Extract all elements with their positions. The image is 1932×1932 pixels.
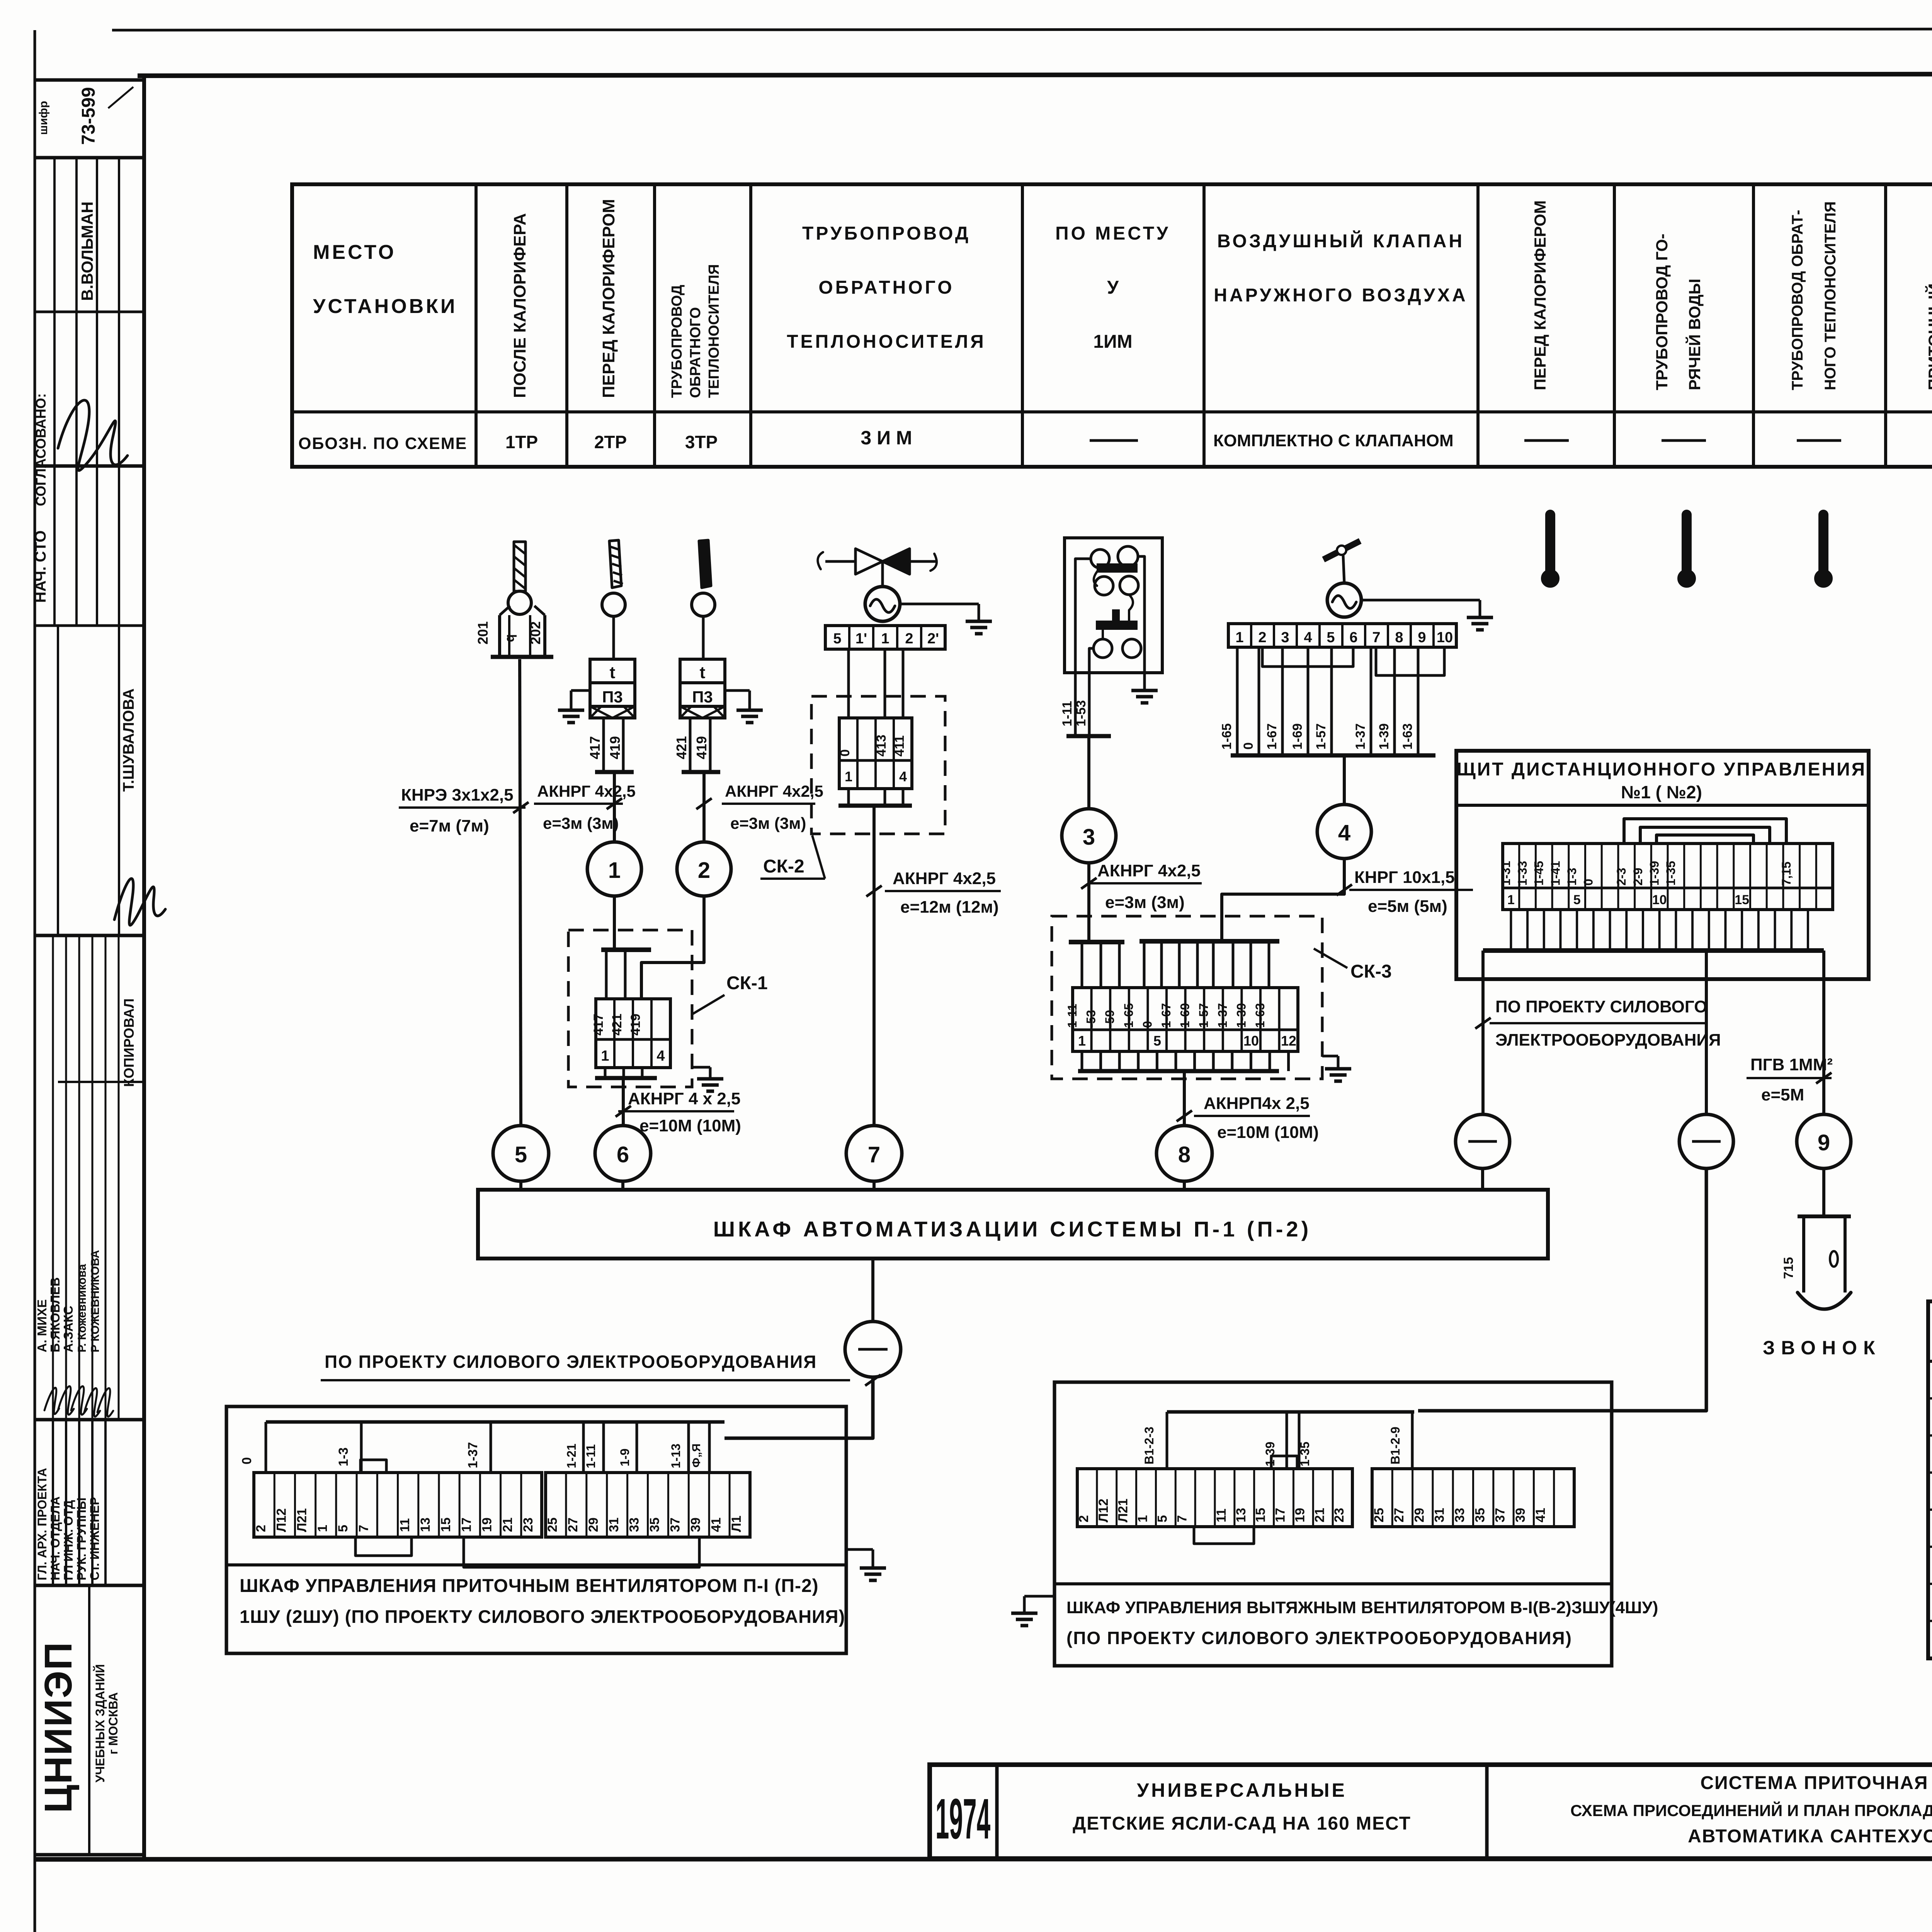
svg-text:5: 5 <box>1153 1033 1161 1049</box>
parts list header row line <box>1928 1360 1932 1363</box>
svg-text:5: 5 <box>833 631 841 647</box>
item circle 7 <box>846 1126 902 1181</box>
SK-1 bottom bus and exit wire <box>604 1068 607 1078</box>
SK-1 top bus <box>601 947 651 952</box>
paper left edge <box>34 30 36 1932</box>
wire dash circle B to vytyazhn box <box>1418 1168 1706 1411</box>
paper top edge <box>112 29 1932 30</box>
svg-text:15: 15 <box>1253 1508 1268 1522</box>
svg-text:1-39: 1-39 <box>1648 861 1662 886</box>
svg-text:19: 19 <box>480 1517 495 1532</box>
vytyazhnoy cabinet divider <box>1054 1582 1612 1585</box>
svg-text:-59: -59 <box>1103 1010 1117 1028</box>
svg-text:27: 27 <box>566 1517 580 1532</box>
svg-text:П3: П3 <box>602 688 623 706</box>
wire bus to circle 3 <box>1087 736 1090 809</box>
SK-3 terminal strip <box>1073 988 1298 1051</box>
wire valve to actuator circle <box>881 561 884 587</box>
svg-text:11: 11 <box>1214 1509 1229 1522</box>
vytyazhnoy risers with labels <box>1166 1412 1168 1469</box>
top table row divider <box>292 410 1932 413</box>
svg-text:29: 29 <box>586 1517 601 1532</box>
svg-text:1-37: 1-37 <box>1216 1003 1230 1028</box>
svg-text:УСТАНОВКИ: УСТАНОВКИ <box>313 295 457 318</box>
svg-text:33: 33 <box>1452 1508 1467 1522</box>
svg-text:АКНРГ 4х2,5: АКНРГ 4х2,5 <box>893 869 996 888</box>
svg-text:ШКАФ УПРАВЛЕНИЯ ПРИТОЧНЫМ В: ШКАФ УПРАВЛЕНИЯ ПРИТОЧНЫМ ВЕНТИЛЯТОРОМ П… <box>240 1576 819 1596</box>
svg-text:13: 13 <box>418 1517 433 1532</box>
item circle 6 <box>595 1126 651 1181</box>
svg-text:5: 5 <box>1573 893 1581 907</box>
thermometer sensor T1 <box>609 540 621 588</box>
svg-text:37: 37 <box>1493 1508 1508 1522</box>
svg-text:3: 3 <box>1083 825 1095 850</box>
svg-text:9: 9 <box>1418 629 1426 646</box>
svg-text:НАЧ. ОТДЕЛА: НАЧ. ОТДЕЛА <box>48 1497 62 1580</box>
svg-text:е=3м (3м): е=3м (3м) <box>730 814 806 832</box>
svg-text:7,15: 7,15 <box>1779 862 1793 886</box>
svg-text:1ШУ (2ШУ) (ПО ПРОЕКТУ СИЛОВОГ: 1ШУ (2ШУ) (ПО ПРОЕКТУ СИЛОВОГО ЭЛЕКТРООБ… <box>240 1606 845 1627</box>
svg-text:е=5М: е=5М <box>1761 1085 1804 1104</box>
stamp outer box <box>930 1765 1932 1859</box>
svg-text:9: 9 <box>1818 1130 1830 1155</box>
top table cell dash 4 <box>1797 439 1841 442</box>
wire SK-2 to circle 7 <box>872 806 876 1126</box>
top table cell dash 1 <box>1090 439 1138 442</box>
sidebar internal vertical rules <box>53 158 56 626</box>
actuator circle item 4 <box>1327 583 1361 617</box>
svg-text:4: 4 <box>1338 820 1350 845</box>
svg-text:е=5м (5м): е=5м (5м) <box>1368 897 1447 916</box>
svg-text:4: 4 <box>656 1048 665 1064</box>
vytyazhnoy riser bus <box>1167 1410 1414 1414</box>
wire circle 3 to SK-3 <box>1087 863 1090 942</box>
svg-text:е=3м (3м): е=3м (3м) <box>1105 893 1185 912</box>
svg-text:ШКАФ УПРАВЛЕНИЯ ВЫТЯЖНЫМ ВЕ: ШКАФ УПРАВЛЕНИЯ ВЫТЯЖНЫМ ВЕНТИЛЯТОРОМ В-… <box>1066 1598 1658 1617</box>
svg-text:1-57: 1-57 <box>1314 723 1328 750</box>
bell zvonok symbol <box>1798 1214 1851 1218</box>
vytyazhnoy terminal strip part1 <box>1077 1469 1352 1527</box>
wire circle 4 into SK-3 <box>1222 859 1344 941</box>
svg-text:А.ЗАКС: А.ЗАКС <box>61 1306 75 1352</box>
svg-text:31: 31 <box>607 1517 621 1532</box>
svg-text:е=12м (12м): е=12м (12м) <box>900 898 999 917</box>
SK-3 bottom bus and exit <box>1081 1051 1083 1071</box>
pritochny cabinet divider <box>226 1563 846 1566</box>
svg-text:СК-1: СК-1 <box>726 973 768 993</box>
svg-text:3ТР: 3ТР <box>685 432 718 452</box>
svg-text:13: 13 <box>1234 1508 1248 1522</box>
svg-text:6: 6 <box>1349 629 1357 646</box>
svg-text:ПГВ 1ММ²: ПГВ 1ММ² <box>1750 1055 1833 1074</box>
SK-2 bottom bus and exit wire <box>847 789 850 806</box>
svg-text:АКНРГ 4 х 2,5: АКНРГ 4 х 2,5 <box>628 1089 740 1108</box>
svg-text:АКНРГ 4х2,5: АКНРГ 4х2,5 <box>537 782 636 800</box>
svg-text:417: 417 <box>591 1014 606 1036</box>
svg-text:СК-3: СК-3 <box>1350 961 1392 982</box>
svg-text:А. МИХЕ: А. МИХЕ <box>35 1299 49 1352</box>
sensor mast 201 202 <box>514 542 526 591</box>
svg-text:8: 8 <box>1395 629 1403 646</box>
svg-text:1: 1 <box>315 1525 330 1532</box>
wires header to SK-2 strip <box>847 649 850 718</box>
svg-text:е=10М (10М): е=10М (10М) <box>1217 1123 1319 1142</box>
svg-text:СИСТЕМА ПРИТОЧНАЯ П-1 (П-: СИСТЕМА ПРИТОЧНАЯ П-1 (П-2) <box>1701 1773 1932 1793</box>
dash circle A <box>1456 1114 1510 1168</box>
svg-text:15: 15 <box>439 1517 453 1532</box>
svg-text:t: t <box>700 663 706 682</box>
svg-text:1: 1 <box>601 1048 609 1064</box>
SK-1 terminal strip <box>596 999 670 1068</box>
svg-text:Ф„Я: Ф„Я <box>690 1444 703 1468</box>
svg-text:7: 7 <box>1372 629 1380 646</box>
svg-text:27: 27 <box>1392 1508 1406 1522</box>
vytyazhnoy terminal strip part2 <box>1372 1469 1574 1527</box>
svg-text:1-45: 1-45 <box>1532 861 1546 886</box>
svg-text:1-33: 1-33 <box>1515 861 1529 886</box>
drawing frame bottom border <box>35 1859 1932 1859</box>
svg-text:ЦНИИЭП: ЦНИИЭП <box>37 1641 80 1813</box>
svg-text:419: 419 <box>628 1014 643 1036</box>
svg-text:1-13: 1-13 <box>669 1444 683 1468</box>
svg-text:1-35: 1-35 <box>1298 1442 1312 1466</box>
svg-text:РУК. ГРУППЫ: РУК. ГРУППЫ <box>75 1498 88 1580</box>
junction box SK-2 dashed outline <box>811 696 945 834</box>
svg-text:0: 0 <box>838 749 852 757</box>
svg-text:ОБРАТНОГО: ОБРАТНОГО <box>687 307 704 398</box>
svg-text:1-37: 1-37 <box>1353 723 1368 750</box>
wire panel to dash circle A <box>1481 951 1485 1114</box>
svg-text:ПЕРЕД КАЛОРИФЕРОМ: ПЕРЕД КАЛОРИФЕРОМ <box>599 199 618 398</box>
svg-text:1-37: 1-37 <box>466 1442 480 1468</box>
svg-text:35: 35 <box>1473 1508 1487 1522</box>
svg-text:П3: П3 <box>692 688 713 706</box>
svg-text:ВОЗДУШНЫЙ КЛАПАН: ВОЗДУШНЫЙ КЛАПАН <box>1217 230 1464 252</box>
svg-text:ПРИТОЧНЫЙ: ПРИТОЧНЫЙ <box>1925 283 1932 390</box>
vytyazhnoy cabinet box <box>1054 1382 1612 1666</box>
svg-text:0: 0 <box>1582 879 1595 886</box>
svg-text:ТРУБОПРОВОД ГО-: ТРУБОПРОВОД ГО- <box>1653 234 1671 390</box>
sensor drop marks under table <box>1545 515 1555 573</box>
svg-text:1': 1' <box>855 631 867 647</box>
svg-text:5: 5 <box>336 1525 350 1532</box>
svg-text:КНРГ 10х1,5: КНРГ 10х1,5 <box>1354 868 1455 887</box>
svg-text:ШКАФ АВТОМАТИЗАЦИИ СИСТЕ: ШКАФ АВТОМАТИЗАЦИИ СИСТЕМЫ П-1 (П-2) <box>713 1217 1312 1241</box>
svg-text:ТЕПЛОНОСИТЕЛЯ: ТЕПЛОНОСИТЕЛЯ <box>706 264 722 398</box>
svg-text:33: 33 <box>627 1517 642 1532</box>
wires header 4 to bus with labels <box>1236 647 1239 755</box>
svg-text:№1 ( №2): №1 ( №2) <box>1621 782 1702 802</box>
svg-text:1-63: 1-63 <box>1253 1003 1267 1028</box>
svg-text:Л21: Л21 <box>1116 1498 1131 1522</box>
svg-text:ГЛ. АРХ. ПРОЕКТА: ГЛ. АРХ. ПРОЕКТА <box>35 1468 49 1580</box>
svg-text:ПЕРЕД КАЛОРИФЕРОМ: ПЕРЕД КАЛОРИФЕРОМ <box>1531 200 1549 390</box>
svg-text:23: 23 <box>1332 1508 1347 1522</box>
ground at SK-3 <box>1322 1055 1338 1058</box>
sidebar signatures squiggles row <box>44 1388 59 1414</box>
svg-text:е=7м (7м): е=7м (7м) <box>410 816 489 835</box>
svg-text:1-35: 1-35 <box>1664 861 1678 886</box>
svg-text:2: 2 <box>1258 629 1266 646</box>
svg-text:35: 35 <box>648 1517 662 1532</box>
svg-text:ТРУБОПРОВОД ОБРАТ-: ТРУБОПРОВОД ОБРАТ- <box>1789 210 1806 390</box>
vytyazhnoy jumper below strip <box>1194 1527 1254 1544</box>
svg-text:29: 29 <box>1412 1508 1427 1522</box>
top table outer box <box>292 184 1932 467</box>
sidebar cell dividers horizontal <box>35 156 144 160</box>
svg-text:Л21: Л21 <box>295 1508 310 1532</box>
svg-text:1-53: 1-53 <box>1074 700 1088 726</box>
svg-text:2: 2 <box>698 858 710 883</box>
svg-text:ПО ПРОЕКТУ СИЛОВОГО: ПО ПРОЕКТУ СИЛОВОГО <box>1495 997 1707 1016</box>
svg-text:АКНРП4х 2,5: АКНРП4х 2,5 <box>1204 1094 1310 1113</box>
pritochny small tab above strip <box>361 1460 386 1473</box>
svg-text:СК-2: СК-2 <box>763 856 804 877</box>
svg-text:Л1: Л1 <box>729 1515 744 1532</box>
SK-2 terminal strip <box>839 718 912 789</box>
svg-text:В.ВОЛЬМАН: В.ВОЛЬМАН <box>78 201 96 301</box>
svg-text:НОГО ТЕПЛОНОСИТЕЛЯ: НОГО ТЕПЛОНОСИТЕЛЯ <box>1822 201 1839 390</box>
sidebar signature squiggle 1 <box>58 400 128 471</box>
wire circle 9 to bell <box>1822 1168 1825 1216</box>
wire circle 2 into SK-1 <box>641 896 704 999</box>
temperature transmitter box t/P3 no.2 <box>680 659 725 683</box>
svg-text:2-3: 2-3 <box>1614 868 1628 886</box>
svg-text:10: 10 <box>1243 1033 1259 1049</box>
svg-text:5: 5 <box>515 1142 527 1167</box>
svg-text:1-11: 1-11 <box>584 1444 598 1468</box>
svg-text:1-65: 1-65 <box>1122 1003 1136 1028</box>
svg-text:1: 1 <box>608 858 621 883</box>
svg-text:19: 19 <box>1293 1508 1307 1522</box>
svg-text:ЭЛЕКТРООБОРУДОВАНИЯ: ЭЛЕКТРООБОРУДОВАНИЯ <box>1495 1031 1721 1049</box>
item circle 9 <box>1797 1114 1851 1168</box>
svg-text:12: 12 <box>1281 1033 1296 1049</box>
svg-text:41: 41 <box>1533 1508 1548 1522</box>
svg-text:7: 7 <box>868 1142 880 1167</box>
svg-text:АКНРГ 4х2,5: АКНРГ 4х2,5 <box>1097 861 1201 880</box>
remote control panel box <box>1456 751 1869 979</box>
svg-text:411: 411 <box>892 735 907 757</box>
svg-text:1-9: 1-9 <box>618 1449 632 1466</box>
junction box SK-3 dashed outline <box>1052 916 1322 1079</box>
wire mast to circle 5 <box>520 659 521 1126</box>
svg-text:НАРУЖНОГО ВОЗДУХА: НАРУЖНОГО ВОЗДУХА <box>1214 285 1468 306</box>
ground at relay box <box>1143 673 1146 690</box>
svg-text:5: 5 <box>1327 629 1335 646</box>
svg-text:Ст. ИНЖЕНЕР: Ст. ИНЖЕНЕР <box>88 1497 102 1580</box>
wires 421 419 below T2 <box>689 718 692 772</box>
avtomatizatsiya cabinet box <box>478 1190 1548 1259</box>
svg-text:1ИМ: 1ИМ <box>1093 332 1132 352</box>
pritochny jumpers below strip <box>355 1537 412 1556</box>
svg-text:25: 25 <box>1372 1508 1386 1522</box>
ground at vytyazhnoy cabinet <box>1024 1595 1054 1598</box>
wire panel to dash circle B <box>1705 951 1708 1114</box>
pritochny cabinet box <box>226 1406 846 1653</box>
item circle 3 <box>1062 809 1116 863</box>
svg-text:8: 8 <box>1178 1142 1190 1167</box>
svg-text:Р. Кожевникова: Р. Кожевникова <box>76 1264 88 1352</box>
wire T2 to circle 2 <box>702 772 706 842</box>
svg-text:t: t <box>610 663 616 682</box>
svg-text:ПО ПРОЕКТУ СИЛОВОГО ЭЛЕК: ПО ПРОЕКТУ СИЛОВОГО ЭЛЕКТРООБОРУДОВАНИЯ <box>325 1352 817 1372</box>
svg-text:МЕСТО: МЕСТО <box>313 241 396 264</box>
wires relay to bus with labels 1-11 -53 -59 <box>1074 673 1077 736</box>
svg-text:ДЕТСКИЕ ЯСЛИ-САД НА 160 МЕС: ДЕТСКИЕ ЯСЛИ-САД НА 160 МЕСТ <box>1073 1813 1411 1834</box>
top table column rules <box>474 184 478 467</box>
top table cell dash 2 <box>1524 439 1569 442</box>
svg-text:КОПИРОВАЛ: КОПИРОВАЛ <box>121 998 137 1087</box>
wire bus to circle 4 <box>1343 755 1346 804</box>
svg-text:ТРУБОПРОВОД: ТРУБОПРОВОД <box>802 223 971 244</box>
svg-text:41: 41 <box>709 1517 723 1532</box>
svg-text:(ПО ПРОЕКТУ СИЛОВОГО ЭЛЕКТ: (ПО ПРОЕКТУ СИЛОВОГО ЭЛЕКТРООБОРУДОВАНИЯ… <box>1066 1628 1572 1648</box>
svg-text:В1-2-9: В1-2-9 <box>1388 1427 1402 1464</box>
pritochny terminal strip part2 <box>546 1473 750 1537</box>
svg-text:1: 1 <box>1507 893 1515 907</box>
svg-text:ЗВОНОК: ЗВОНОК <box>1763 1337 1881 1359</box>
dash circle C <box>845 1321 901 1377</box>
svg-text:АКНРГ 4х2,5: АКНРГ 4х2,5 <box>725 782 823 800</box>
svg-text:2: 2 <box>253 1525 268 1532</box>
svg-text:шифр: шифр <box>37 101 50 135</box>
top table cell dash 3 <box>1662 439 1706 442</box>
svg-text:1-69: 1-69 <box>1290 723 1305 750</box>
item circle 8 <box>1156 1126 1212 1181</box>
parts list row lines <box>1928 1397 1932 1400</box>
svg-text:715: 715 <box>1781 1257 1796 1279</box>
svg-text:2': 2' <box>927 631 939 647</box>
svg-text:Л12: Л12 <box>1096 1498 1111 1522</box>
wire T1 to circle 1 <box>613 772 616 842</box>
svg-text:3: 3 <box>1281 629 1289 646</box>
svg-text:1ТР: 1ТР <box>505 432 538 452</box>
svg-text:УЧЕБНЫХ ЗДАНИЙ: УЧЕБНЫХ ЗДАНИЙ <box>93 1664 107 1782</box>
wire panel to circle 9 <box>1822 951 1825 1114</box>
sidebar outer box <box>35 78 144 82</box>
svg-text:НАЧ. СТО: НАЧ. СТО <box>32 531 49 603</box>
SK-3 bus 2 <box>1139 939 1279 944</box>
svg-text:413: 413 <box>874 735 889 757</box>
svg-text:1-3: 1-3 <box>1565 868 1579 886</box>
svg-text:q: q <box>502 634 517 642</box>
item 4 header strip 1..10 <box>1228 624 1456 647</box>
svg-text:Р КОЖЕВНИКОВА: Р КОЖЕВНИКОВА <box>89 1250 102 1352</box>
svg-text:10: 10 <box>1652 893 1667 907</box>
item circle 2 <box>677 842 731 896</box>
svg-text:31: 31 <box>1432 1508 1447 1522</box>
wire circle 1 to SK-1 bus <box>613 896 616 950</box>
wire actuator to ground <box>900 603 979 605</box>
svg-text:2: 2 <box>905 631 913 647</box>
svg-text:1-67: 1-67 <box>1265 723 1279 750</box>
svg-text:-53: -53 <box>1084 1010 1098 1028</box>
svg-text:5: 5 <box>1155 1515 1170 1522</box>
drawing frame top border <box>138 73 1932 76</box>
svg-text:419: 419 <box>607 736 623 759</box>
wire dash circle A to avtomatizatsiya box <box>1481 1168 1484 1190</box>
svg-text:РЯЧЕЙ ВОДЫ: РЯЧЕЙ ВОДЫ <box>1685 279 1704 390</box>
ground at pritochny cabinet <box>846 1548 873 1551</box>
SK-3 bus 1 <box>1069 940 1124 944</box>
svg-text:Л12: Л12 <box>274 1508 289 1532</box>
svg-text:17: 17 <box>459 1517 474 1532</box>
svg-text:У: У <box>1107 277 1119 298</box>
svg-text:6: 6 <box>617 1142 629 1167</box>
svg-text:1-57: 1-57 <box>1197 1003 1211 1028</box>
svg-text:1-3: 1-3 <box>336 1447 351 1466</box>
CK-2 header terminal strip 5 1p 1 2 2p <box>825 626 945 649</box>
pritochny riser bus <box>266 1420 724 1424</box>
actuator circle with sine <box>865 587 900 621</box>
svg-text:421: 421 <box>673 736 689 759</box>
svg-text:10: 10 <box>1437 629 1453 646</box>
svg-text:1974: 1974 <box>935 1787 990 1851</box>
panel nested cable loops <box>1624 819 1786 844</box>
butterfly valve symbol <box>855 549 883 574</box>
wire fan to actuator <box>1343 555 1344 583</box>
svg-text:15: 15 <box>1735 893 1749 907</box>
fan propeller symbol item 4 <box>1323 541 1360 560</box>
svg-text:1-39: 1-39 <box>1377 723 1391 750</box>
svg-text:73-599: 73-599 <box>78 87 99 145</box>
svg-text:1-11: 1-11 <box>1065 1004 1079 1028</box>
svg-text:2-9: 2-9 <box>1631 868 1645 886</box>
svg-text:17: 17 <box>1273 1508 1288 1522</box>
svg-text:417: 417 <box>587 736 603 759</box>
pritochny terminal strip part1 <box>254 1473 542 1537</box>
svg-text:2ТР: 2ТР <box>594 432 627 452</box>
svg-text:11: 11 <box>398 1518 412 1532</box>
item circle 1 <box>587 842 641 896</box>
svg-text:1: 1 <box>845 769 852 784</box>
vytyazhnoy small tab above strip <box>1271 1456 1297 1469</box>
svg-text:1-11: 1-11 <box>1060 701 1075 726</box>
svg-text:Т.ШУВАЛОВА: Т.ШУВАЛОВА <box>120 689 137 792</box>
svg-text:КНРЭ 3х1х2,5: КНРЭ 3х1х2,5 <box>401 786 514 804</box>
svg-text:ГЛ ИНЖ. ОТД: ГЛ ИНЖ. ОТД <box>61 1500 75 1580</box>
svg-text:ПО МЕСТУ: ПО МЕСТУ <box>1055 223 1170 244</box>
svg-text:Б.ЯКОВЛЕВ: Б.ЯКОВЛЕВ <box>48 1277 62 1352</box>
svg-text:421: 421 <box>610 1014 624 1036</box>
item circle 5 <box>493 1126 549 1181</box>
svg-text:АВТОМАТИКА САНТЕХУСТРОЙСТВ: АВТОМАТИКА САНТЕХУСТРОЙСТВ <box>1688 1825 1932 1847</box>
svg-text:39: 39 <box>1513 1508 1528 1522</box>
svg-text:4: 4 <box>899 769 907 784</box>
sidebar signature squiggle 2 <box>114 879 165 925</box>
svg-text:0: 0 <box>240 1457 254 1464</box>
svg-text:37: 37 <box>668 1517 682 1532</box>
svg-text:25: 25 <box>545 1517 560 1532</box>
wire actuator 4 to ground <box>1361 599 1480 602</box>
svg-text:21: 21 <box>1312 1508 1327 1522</box>
temperature transmitter box t/P3 no.1 <box>590 659 635 683</box>
svg-text:1-69: 1-69 <box>1178 1003 1192 1028</box>
svg-text:ЩИТ ДИСТАНЦИОННОГО УПРАВЛЕНИ: ЩИТ ДИСТАНЦИОННОГО УПРАВЛЕНИЯ <box>1457 759 1866 780</box>
svg-text:1: 1 <box>1235 629 1243 646</box>
svg-text:ПОСЛЕ КАЛОРИФЕРА: ПОСЛЕ КАЛОРИФЕРА <box>510 213 529 398</box>
svg-text:23: 23 <box>521 1517 536 1532</box>
svg-text:3 И М: 3 И М <box>861 427 912 449</box>
parts list table outer <box>1928 1301 1932 1658</box>
svg-text:УНИВЕРСАЛЬНЫЕ: УНИВЕРСАЛЬНЫЕ <box>1137 1779 1347 1801</box>
svg-text:г МОСКВА: г МОСКВА <box>106 1692 120 1754</box>
panel terminal strip <box>1503 844 1833 910</box>
svg-text:1-65: 1-65 <box>1219 723 1234 750</box>
ground at SK-1 <box>692 1066 710 1069</box>
svg-text:СОГЛАСОВАНО:: СОГЛАСОВАНО: <box>33 393 49 506</box>
